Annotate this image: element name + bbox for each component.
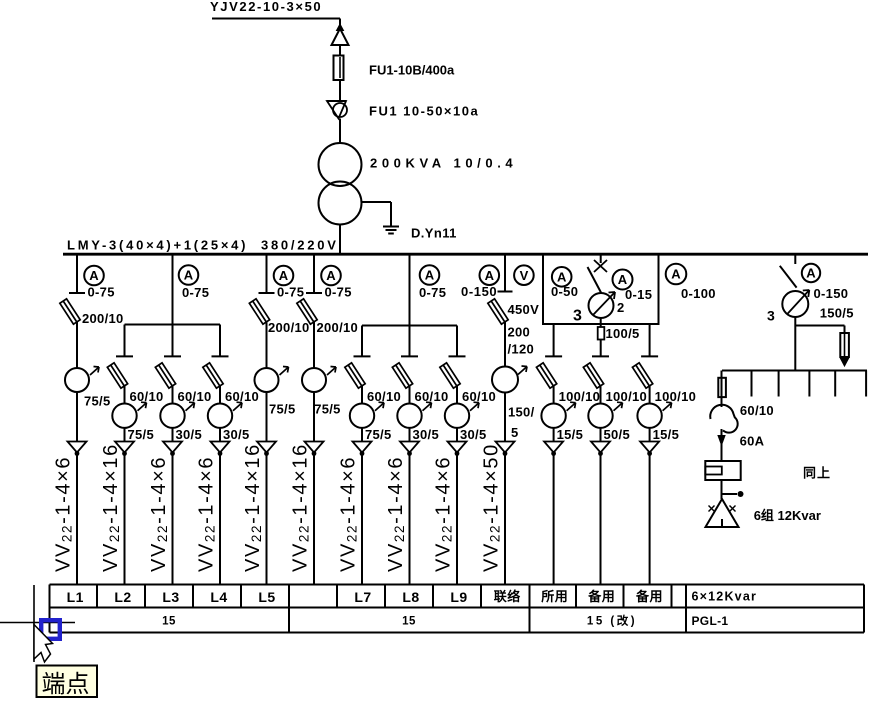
svg-text:200KVA 10/0.4: 200KVA 10/0.4: [370, 156, 517, 171]
svg-text:A: A: [557, 269, 567, 284]
svg-text:100/10: 100/10: [606, 389, 648, 404]
svg-text:100/5: 100/5: [606, 326, 640, 341]
svg-text:A: A: [279, 268, 289, 283]
svg-text:60/10: 60/10: [415, 389, 449, 404]
svg-text:30/5: 30/5: [176, 427, 203, 442]
svg-text:0-75: 0-75: [325, 285, 352, 300]
svg-text:6×12Kvar: 6×12Kvar: [692, 589, 758, 603]
svg-text:YJV22-10-3×50: YJV22-10-3×50: [210, 0, 322, 14]
svg-text:A: A: [326, 268, 336, 283]
svg-text:150/5: 150/5: [820, 305, 854, 320]
svg-text:450V: 450V: [508, 302, 540, 317]
svg-text:15: 15: [162, 616, 176, 628]
svg-text:5: 5: [511, 425, 519, 440]
svg-text:VV22-1-4×6: VV22-1-4×6: [338, 456, 360, 572]
svg-text:60/10: 60/10: [225, 389, 259, 404]
svg-text:VV22-1-4×16: VV22-1-4×16: [290, 443, 312, 572]
svg-text:FU1 10-50×10a: FU1 10-50×10a: [369, 104, 479, 119]
svg-text:30/5: 30/5: [460, 427, 487, 442]
svg-text:联络: 联络: [494, 589, 521, 604]
svg-text:75/5: 75/5: [314, 402, 341, 417]
svg-text:VV22-1-4×6: VV22-1-4×6: [148, 456, 170, 572]
svg-text:D.Yn11: D.Yn11: [411, 226, 457, 241]
svg-text:A: A: [806, 266, 816, 281]
svg-text:150/: 150/: [508, 405, 535, 420]
svg-text:VV22-1-4×6: VV22-1-4×6: [196, 456, 218, 572]
svg-text:同上: 同上: [803, 466, 831, 481]
svg-text:A: A: [485, 268, 495, 283]
svg-text:VV22-1-4×50: VV22-1-4×50: [481, 443, 503, 572]
svg-text:60A: 60A: [740, 434, 765, 449]
svg-text:/120: /120: [508, 341, 535, 356]
svg-text:3: 3: [573, 308, 582, 325]
svg-text:30/5: 30/5: [223, 427, 250, 442]
svg-text:60/10: 60/10: [462, 389, 496, 404]
svg-text:6组 12Kvar: 6组 12Kvar: [754, 508, 821, 523]
svg-text:60/10: 60/10: [740, 403, 774, 418]
svg-text:0-50: 0-50: [551, 284, 578, 299]
svg-text:L3: L3: [162, 589, 179, 605]
svg-text:L8: L8: [402, 589, 419, 605]
svg-text:60/10: 60/10: [367, 389, 401, 404]
svg-text:30/5: 30/5: [413, 427, 440, 442]
svg-text:A: A: [89, 268, 99, 283]
svg-text:2: 2: [617, 300, 624, 315]
svg-text:A: A: [425, 268, 435, 283]
svg-text:LMY-3(40×4)+1(25×4) 380/220V: LMY-3(40×4)+1(25×4) 380/220V: [67, 238, 339, 253]
svg-text:VV22-1-4×16: VV22-1-4×16: [242, 443, 264, 572]
svg-text:备用: 备用: [587, 589, 615, 604]
svg-text:FU1-10B/400a: FU1-10B/400a: [369, 63, 455, 78]
svg-text:PGL-1: PGL-1: [692, 614, 729, 628]
svg-text:100/10: 100/10: [559, 389, 601, 404]
svg-text:100/10: 100/10: [655, 389, 697, 404]
svg-text:L7: L7: [354, 589, 371, 605]
svg-text:A: A: [184, 268, 194, 283]
svg-text:15: 15: [402, 616, 416, 628]
svg-text:0-150: 0-150: [461, 284, 497, 299]
svg-text:L4: L4: [210, 589, 227, 605]
svg-text:L1: L1: [67, 589, 84, 605]
svg-text:0-150: 0-150: [814, 286, 849, 301]
svg-text:200: 200: [508, 324, 531, 339]
svg-text:所用: 所用: [541, 589, 568, 604]
svg-text:200/10: 200/10: [317, 320, 359, 335]
svg-text:75/5: 75/5: [269, 402, 296, 417]
svg-text:V: V: [520, 268, 529, 283]
svg-text:15/5: 15/5: [557, 427, 584, 442]
svg-text:50/5: 50/5: [604, 427, 631, 442]
svg-text:VV22-1-4×16: VV22-1-4×16: [100, 443, 122, 572]
svg-text:75/5: 75/5: [84, 394, 111, 409]
svg-text:0-75: 0-75: [419, 285, 446, 300]
svg-text:VV22-1-4×6: VV22-1-4×6: [53, 456, 75, 572]
svg-text:VV22-1-4×6: VV22-1-4×6: [385, 456, 407, 572]
svg-text:L9: L9: [450, 589, 467, 605]
svg-text:200/10: 200/10: [82, 311, 124, 326]
svg-text:备用: 备用: [635, 589, 663, 604]
svg-text:L5: L5: [258, 589, 275, 605]
svg-text:200/10: 200/10: [268, 320, 310, 335]
svg-text:A: A: [618, 272, 628, 287]
svg-text:VV22-1-4×6: VV22-1-4×6: [433, 456, 455, 572]
svg-text:0-100: 0-100: [681, 286, 716, 301]
svg-text:75/5: 75/5: [128, 427, 155, 442]
svg-text:75/5: 75/5: [365, 427, 392, 442]
svg-text:L2: L2: [114, 589, 131, 605]
svg-text:15 (改): 15 (改): [587, 614, 637, 628]
svg-text:60/10: 60/10: [178, 389, 212, 404]
svg-text:A: A: [671, 267, 681, 282]
svg-text:端点: 端点: [42, 671, 90, 698]
svg-text:3: 3: [767, 308, 775, 324]
svg-text:60/10: 60/10: [130, 389, 164, 404]
svg-text:0-75: 0-75: [88, 285, 115, 300]
svg-text:0-75: 0-75: [277, 285, 304, 300]
svg-text:0-75: 0-75: [182, 285, 209, 300]
svg-text:0-15: 0-15: [625, 287, 652, 302]
svg-text:15/5: 15/5: [653, 427, 680, 442]
